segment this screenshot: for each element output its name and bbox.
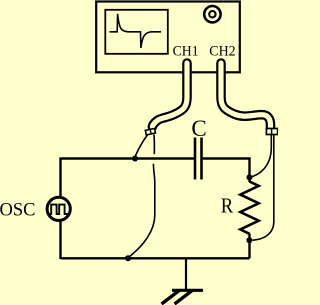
wire: ground stub: [185, 258, 187, 290]
wire: C right plate to top-right corner down to node B: [203, 159, 250, 183]
CH2 ground lead: [253, 135, 274, 240]
svg-text:R: R: [221, 193, 233, 217]
CH1 probe cable: [152, 63, 187, 127]
junction node D (CH1 ground on bottom wire): [125, 255, 131, 261]
CH1 ground lead: [130, 135, 155, 257]
wire: top left (node A to OSC corner and C left plate): [61, 157, 195, 159]
svg-text:CH1: CH1: [173, 44, 199, 60]
wire: OSC bottom to bottom-left corner: [59, 221, 61, 259]
resistor R: [240, 182, 258, 234]
junction node E (bottom of R): [246, 237, 252, 243]
oscilloscope body: [96, 2, 240, 73]
OSC square-wave glyph: [49, 205, 69, 214]
svg-text:C: C: [191, 116, 206, 141]
wire: left vertical (corner to OSC top): [59, 158, 61, 198]
svg-text:CH2: CH2: [209, 44, 235, 60]
oscilloscope screen: [105, 10, 168, 54]
CH2 signal wire (probe tip to node B): [252, 135, 272, 177]
CH2 probe connector: [266, 129, 277, 135]
svg-text:OSC: OSC: [0, 199, 36, 220]
waveform trace on screen: [110, 14, 162, 48]
junction node A (CH1 tap between OSC and C): [132, 156, 138, 162]
CH1 signal wire (probe tip to node A): [135, 134, 148, 157]
CH2 probe cable: [221, 63, 271, 127]
junction node B (top of R): [246, 174, 252, 180]
CH1 probe connector: [145, 128, 155, 135]
wire: R bottom to bottom-right corner: [248, 234, 250, 259]
capacitor C: [195, 138, 202, 180]
ground symbol: [162, 290, 204, 304]
OSC source circle: [47, 197, 70, 220]
knob: [204, 6, 220, 22]
wire: bottom rail: [61, 257, 250, 259]
